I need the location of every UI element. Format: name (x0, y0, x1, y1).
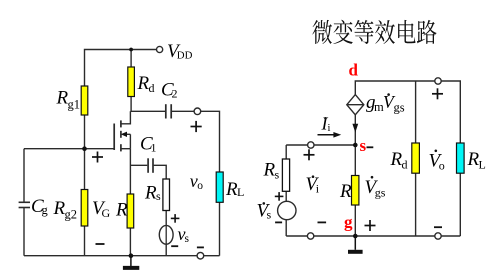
transistor MOSFET body to source (129, 134, 131, 148)
minus sign VG (96, 243, 105, 245)
wire gate rail (24, 148, 114, 150)
wire output terminal to RL top (201, 111, 220, 172)
terminal VDD circle (157, 46, 163, 52)
terminal output circle (194, 108, 201, 115)
capacitor C1 plates (148, 158, 153, 173)
wire VDD top rail (85, 50, 157, 87)
svg-text:R: R (339, 181, 352, 202)
svg-text:s: s (275, 168, 280, 182)
wire source branch to R (129, 149, 131, 194)
wire C2 right to output terminal (172, 110, 194, 112)
transistor MOSFET body arrow (125, 133, 130, 135)
wire Rd bottom to drain node (130, 97, 132, 112)
plus top right (432, 88, 443, 99)
junction dot gate node (82, 146, 87, 151)
svg-text:d: d (349, 61, 359, 80)
resistor Rd (128, 67, 135, 97)
terminal input bottom circle (307, 233, 313, 239)
minus sign vs (171, 245, 178, 247)
plus right of g (365, 220, 376, 231)
wire Rs2 to Vs2 (285, 191, 287, 201)
wire top rail right (355, 81, 435, 95)
svg-text:R: R (115, 200, 128, 221)
wire Rg1 bottom to gate node (84, 115, 86, 149)
wire s node to R2 (354, 145, 356, 176)
resistor RL load (216, 172, 223, 202)
minus Vs2 (275, 221, 282, 223)
resistor R (127, 194, 134, 228)
svg-text:s: s (156, 189, 161, 203)
wire input bottom right (314, 235, 356, 237)
wire R2 to g node (354, 205, 356, 236)
plus Vs2 (275, 192, 284, 201)
plus Vi top (304, 149, 315, 160)
title text 微变等效电路 (312, 20, 436, 44)
terminal output top circle right (435, 78, 441, 84)
svg-text:d: d (402, 158, 408, 172)
wire C1 left (130, 164, 147, 166)
wire left branch upper (285, 145, 287, 159)
plus sign vs (171, 214, 180, 223)
terminal output bottom circle right (435, 233, 441, 239)
dependent source gmVgs diamond (347, 95, 364, 115)
svg-text:L: L (479, 157, 486, 171)
junction dot g node (353, 234, 358, 239)
wire Rg2 lower (84, 226, 86, 256)
plus sign VG (92, 152, 103, 163)
svg-text:L: L (237, 185, 244, 199)
wire bottom rail far right (441, 235, 460, 237)
transistor MOSFET channel segments (120, 120, 122, 151)
wire bottom rail right (355, 235, 435, 237)
resistor Rg2 (81, 190, 88, 227)
wire drain to C2 left (130, 110, 165, 112)
svg-text:s: s (360, 136, 367, 155)
svg-text:gs: gs (394, 100, 405, 114)
wire input bottom left (286, 235, 307, 237)
wire Rg2 upper (84, 149, 86, 190)
minus bottom right (434, 226, 442, 228)
svg-text:g1: g1 (68, 98, 81, 112)
ground symbol right (348, 236, 363, 252)
wire vs source to bus (165, 244, 167, 256)
transistor MOSFET T gate bar (113, 124, 115, 151)
wire R bottom to bus (129, 228, 131, 256)
svg-text:g: g (344, 213, 353, 232)
wire through vs (165, 226, 167, 245)
capacitor C2 plates (166, 104, 171, 118)
wire Rd2 bottom branch (415, 173, 417, 236)
svg-text:d: d (149, 81, 155, 95)
wire bottom bus left (24, 255, 197, 257)
svg-text:i: i (328, 123, 331, 134)
resistor R2 (352, 176, 359, 206)
svg-text:s: s (185, 233, 190, 245)
resistor Rg1 (81, 86, 88, 115)
minus sign output (197, 246, 204, 248)
wire C1 right to Rs top (154, 165, 167, 179)
wire RL bottom (219, 202, 221, 255)
wire bottom terminal to RL branch (204, 255, 220, 257)
ground symbol left (123, 256, 139, 268)
svg-text:DD: DD (177, 50, 193, 62)
transistor MOSFET source stub (121, 148, 130, 150)
wire input top left (286, 144, 308, 146)
svg-text:o: o (439, 158, 445, 172)
wire input top right (314, 144, 355, 146)
wire RL2 bottom branch (459, 173, 461, 236)
svg-text:2: 2 (172, 87, 178, 101)
junction dot ground node (129, 253, 134, 258)
svg-text:g: g (42, 203, 49, 217)
resistor Rd2 (412, 143, 420, 173)
resistor Rs (163, 179, 170, 211)
resistor RL2 (457, 143, 465, 173)
resistor Rs2 (282, 159, 289, 191)
svg-text:s: s (267, 208, 272, 222)
terminal bottom-right circle (197, 252, 204, 259)
capacitor Cg plates (19, 202, 30, 207)
svg-text:G: G (102, 206, 111, 220)
source vs circle (159, 225, 173, 244)
arrow Ii (318, 134, 338, 136)
source Vs2 circle (278, 201, 296, 219)
wire Rd top branch (130, 50, 132, 68)
wire top rail right segment (441, 81, 460, 143)
wire Cg lower (23, 208, 25, 256)
svg-text:o: o (197, 180, 203, 192)
svg-text:gs: gs (375, 186, 386, 200)
dependent source arrow down to s (354, 115, 356, 145)
svg-text:1: 1 (151, 141, 157, 155)
transistor MOSFET drain stub (121, 111, 130, 124)
minus after s (367, 146, 374, 148)
wire Rd2 top branch (415, 81, 417, 143)
wire Cg upper (23, 149, 25, 203)
junction dot VDD/Rd (129, 48, 133, 52)
wire Rs bottom to vs source (165, 211, 167, 226)
terminal input top circle (308, 142, 314, 148)
junction dot s node (353, 143, 358, 148)
wire Vs2 to bottom (285, 220, 287, 236)
svg-text:g2: g2 (65, 208, 78, 222)
plus sign output (191, 121, 202, 132)
minus Vi bottom (318, 221, 327, 223)
